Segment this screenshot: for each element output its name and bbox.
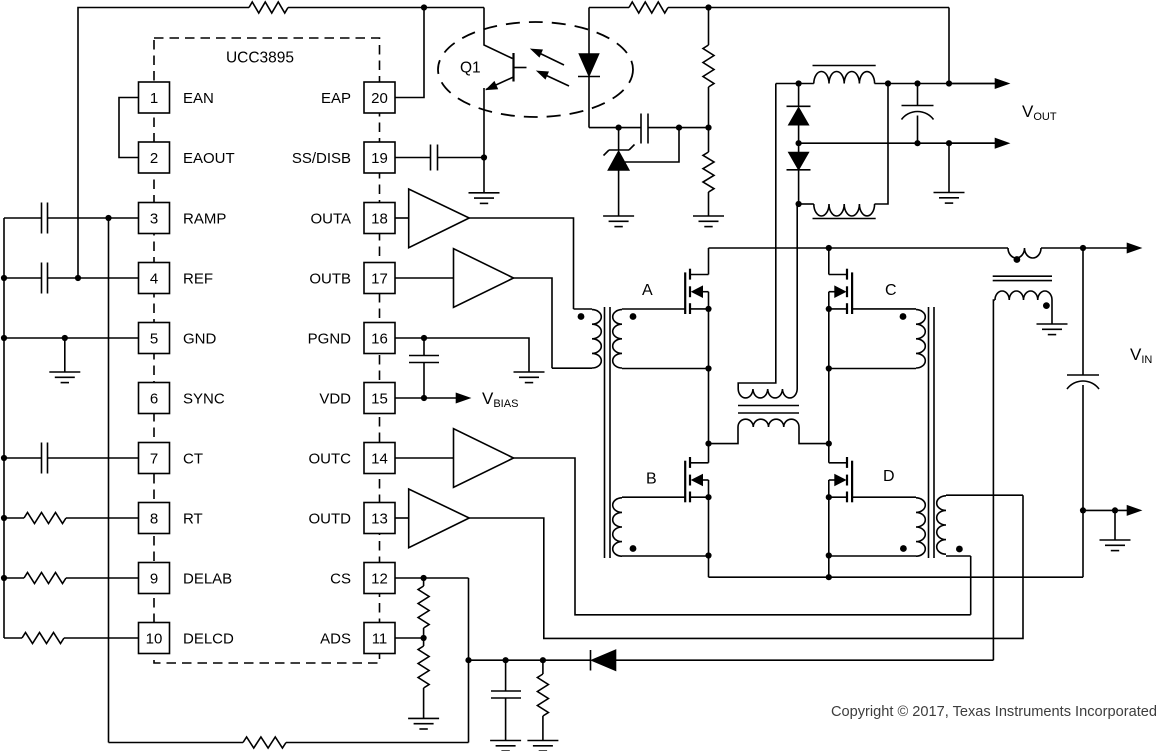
node ADS junction — [421, 635, 427, 641]
ground at T4 secondary — [1037, 324, 1068, 335]
wire bridge bottom rail — [709, 510, 1084, 577]
svg-text:6: 6 — [150, 390, 158, 407]
node VIN plus rail — [1080, 245, 1086, 251]
wire OUTA to T1 primary top — [469, 218, 573, 309]
ground at VIN minus — [1100, 510, 1131, 550]
wire output mid row — [799, 142, 1000, 144]
ground at divider — [693, 216, 724, 227]
svg-text:13: 13 — [371, 510, 388, 527]
wire OUTD to T2 via bottom — [469, 495, 1023, 638]
transistor MOSFET B — [685, 457, 708, 502]
wire EAP to top feedback — [395, 8, 424, 98]
resistor R-RT — [4, 513, 139, 524]
pin 14 OUTC — [309, 443, 396, 474]
transformer T4 secondary winding — [993, 291, 1052, 660]
wire T2 primary bottom to OUTC route — [970, 556, 972, 615]
diode D-rect lower — [787, 143, 811, 204]
svg-text:OUTC: OUTC — [309, 450, 352, 467]
svg-text:CT: CT — [183, 450, 203, 467]
wire output sense top — [589, 8, 949, 84]
ground at GND pin — [49, 338, 80, 383]
resistor R-ADS lower — [418, 638, 429, 718]
svg-text:VBIAS: VBIAS — [482, 389, 518, 410]
pin 11 ADS — [320, 623, 395, 654]
node winding C return — [826, 365, 832, 371]
ground at Q1 emitter — [469, 193, 500, 204]
capacitor C-CT — [4, 443, 139, 474]
wire far-left rail — [3, 218, 5, 638]
wire CS pin row — [395, 578, 469, 743]
label A — [642, 282, 653, 299]
node divider mid — [705, 125, 711, 131]
svg-text:1: 1 — [150, 90, 158, 107]
pin 2 EAOUT — [139, 142, 235, 173]
pin 13 OUTD — [309, 503, 396, 534]
pin 10 DELCD — [139, 623, 235, 654]
svg-text:11: 11 — [372, 630, 388, 647]
transistor Q1 emitter — [484, 77, 514, 158]
svg-text:5: 5 — [150, 330, 158, 347]
svg-text:9: 9 — [150, 570, 158, 587]
wire B source leg — [708, 480, 710, 577]
svg-text:EAP: EAP — [321, 90, 351, 107]
transistor MOSFET A — [685, 269, 708, 314]
svg-text:VDD: VDD — [319, 390, 351, 407]
buffer OUTD — [395, 489, 469, 548]
winding L-OUT bottom — [799, 84, 888, 219]
node rectifier mid left — [796, 140, 802, 146]
buffer OUTA — [395, 189, 469, 248]
capacitor C-OUT — [902, 80, 934, 146]
node B source — [705, 494, 711, 500]
svg-text:3: 3 — [150, 210, 158, 227]
svg-text:B: B — [646, 471, 657, 488]
transformer T4 primary phase dot — [1014, 256, 1021, 263]
svg-text:12: 12 — [371, 570, 388, 587]
ground at TL431 — [603, 216, 634, 227]
svg-text:RT: RT — [183, 510, 203, 527]
diode D-LED — [578, 54, 600, 128]
label VBIAS — [482, 389, 518, 410]
pin 5 GND — [139, 323, 217, 354]
resistor R-DELCD — [4, 633, 139, 644]
svg-text:Copyright © 2017, Texas Instru: Copyright © 2017, Texas Instruments Inco… — [831, 704, 1157, 720]
capacitor C-RAMP — [4, 203, 139, 234]
wire opto emitter to ground — [483, 158, 485, 193]
capacitor C-CS — [491, 660, 521, 740]
resistor R-CS filter — [537, 660, 548, 740]
svg-text:ADS: ADS — [320, 630, 351, 647]
ground at R-CS filter — [527, 741, 558, 751]
arrow VOUT plus — [949, 79, 1008, 88]
ground at C-CS — [490, 741, 521, 751]
capacitor C-SS — [395, 145, 484, 171]
capacitor C-REF — [4, 263, 139, 294]
node rectifier cathode top — [796, 80, 802, 86]
transformer T1 secondary A phase dot — [630, 313, 637, 320]
node C source — [826, 306, 832, 312]
node VIN minus ground tap — [1112, 507, 1118, 513]
node A source — [705, 306, 711, 312]
svg-text:PGND: PGND — [308, 330, 352, 347]
wire top feedback — [78, 8, 484, 279]
resistor R-RAMP bottom — [243, 737, 286, 748]
node choke right top — [885, 80, 891, 86]
label C — [885, 282, 897, 299]
buffer OUTC — [395, 429, 514, 488]
svg-text:4: 4 — [150, 270, 158, 287]
transformer T2 secondary C winding — [829, 309, 926, 369]
label Q1 — [460, 60, 481, 77]
node R-CS tap — [540, 657, 546, 663]
label VOUT — [1022, 102, 1057, 123]
svg-text:OUTD: OUTD — [309, 510, 352, 527]
svg-text:16: 16 — [371, 330, 388, 347]
transistor MOSFET D — [829, 457, 852, 502]
node RAMP junction — [105, 215, 111, 221]
svg-text:DELCD: DELCD — [183, 630, 234, 647]
node SS cap to opto emitter — [481, 154, 487, 160]
ground at ADS divider — [408, 718, 439, 729]
pin 15 VDD — [319, 383, 395, 414]
transformer T4 secondary phase dot — [1043, 302, 1050, 309]
label B — [646, 471, 657, 488]
resistor R-div lower — [703, 128, 714, 216]
wire bottom RAMP return — [109, 742, 469, 744]
node VOUT minus — [946, 140, 952, 146]
transistor MOSFET C — [829, 269, 852, 314]
transformer T2 secondary D winding — [829, 497, 926, 556]
node VOUT plus — [946, 80, 952, 86]
transformer T1 secondary B phase dot — [630, 545, 637, 552]
pin 20 EAP — [321, 82, 395, 113]
pin 18 OUTA — [310, 203, 395, 234]
node primary left — [705, 441, 711, 447]
transformer T2 primary phase dot — [956, 546, 963, 553]
wire CS filter row — [469, 659, 591, 661]
node sense divider top — [705, 4, 711, 10]
pin 7 CT — [139, 443, 204, 474]
label D — [883, 468, 895, 485]
wire A-B leg midpoint — [708, 292, 710, 463]
svg-text:VIN: VIN — [1130, 345, 1152, 366]
node EAP-feedback junction — [421, 4, 427, 10]
label VIN — [1130, 345, 1152, 366]
capacitor C-IN — [1067, 248, 1099, 510]
svg-text:15: 15 — [371, 390, 388, 407]
svg-text:8: 8 — [150, 510, 158, 527]
wire second rail x=109 — [108, 218, 110, 743]
inductor L-OUT top — [813, 66, 876, 84]
svg-text:18: 18 — [371, 210, 388, 227]
light arrow 1 — [532, 50, 564, 66]
transformer T1 secondary B winding — [613, 497, 709, 556]
wire GND row — [4, 337, 139, 339]
node junction dots on far-left rail — [1, 275, 7, 581]
node winding D return — [826, 552, 832, 558]
resistor R-sense top — [629, 2, 668, 13]
svg-text:14: 14 — [371, 450, 388, 467]
diode D-CS — [591, 650, 994, 671]
transformer T3 core — [738, 406, 799, 414]
transformer T4 core — [993, 276, 1052, 280]
node C-CS tap — [503, 657, 509, 663]
wire VBIAS arrow — [395, 394, 469, 403]
arrow VOUT minus — [949, 139, 1008, 148]
node C-FB right junction — [676, 125, 682, 131]
IC U1 UCC3895 dashed outline — [154, 38, 380, 663]
wire OUTC to T2 via bottom — [514, 458, 971, 615]
transformer T1 primary phase dot — [578, 313, 585, 320]
node VIN minus — [1080, 507, 1086, 513]
pin 17 OUTB — [309, 263, 395, 294]
wire feedback row — [589, 127, 709, 129]
svg-text:10: 10 — [146, 630, 163, 647]
resistor R-DELAB — [4, 573, 139, 584]
svg-text:20: 20 — [371, 90, 388, 107]
svg-text:Q1: Q1 — [460, 60, 481, 77]
arrow VIN plus — [1083, 244, 1140, 253]
wire VIN minus row — [1083, 506, 1140, 515]
pin 6 SYNC — [139, 383, 225, 414]
transistor Q1 base bar — [514, 53, 527, 82]
pin 3 RAMP — [139, 203, 227, 234]
wire C drain leg — [828, 248, 830, 275]
ground at PGND — [514, 372, 545, 383]
node REF-feedback junction — [75, 275, 81, 281]
pin 9 DELAB — [139, 563, 233, 594]
svg-text:19: 19 — [371, 150, 388, 167]
wire output top row — [776, 83, 1000, 85]
optocoupler Q1 dashed ellipse — [438, 22, 633, 117]
wire A drain leg — [708, 248, 710, 275]
transformer T1 primary winding — [552, 309, 601, 368]
svg-text:D: D — [883, 468, 895, 485]
transformer T3 secondary winding — [738, 84, 797, 398]
wire ADS pin row — [395, 637, 424, 639]
shunt regulator U2 TL431 — [604, 128, 680, 216]
svg-text:EAN: EAN — [183, 90, 214, 107]
pin 4 REF — [139, 263, 214, 294]
transformer T2 primary winding — [937, 495, 1023, 556]
IC label UCC3895 — [226, 50, 294, 67]
svg-text:OUTB: OUTB — [309, 270, 351, 287]
diode D-rect upper — [787, 84, 811, 144]
svg-text:VOUT: VOUT — [1022, 102, 1057, 123]
node CS divider top — [421, 575, 427, 581]
wire D source leg — [828, 480, 830, 577]
node PGND cap tap — [421, 335, 427, 341]
pin 16 PGND — [308, 323, 395, 354]
svg-text:GND: GND — [183, 330, 217, 347]
svg-text:2: 2 — [150, 150, 158, 167]
svg-text:CS: CS — [330, 570, 351, 587]
wire LED branch top — [588, 8, 590, 55]
transistor Q1 collector — [484, 8, 513, 59]
node TL431 tap — [616, 125, 622, 131]
node output winding bottom tap — [796, 201, 802, 207]
svg-text:SS/DISB: SS/DISB — [292, 150, 351, 167]
wire bridge top rail — [709, 247, 1084, 249]
pin 19 SS/DISB — [292, 142, 395, 173]
resistor R-FB top — [249, 2, 288, 13]
node GND tap — [62, 335, 68, 341]
transformer T4 primary inline — [1008, 248, 1041, 258]
capacitor C-FB — [641, 114, 648, 144]
svg-text:7: 7 — [150, 450, 158, 467]
transformer T2 secondary D phase dot — [900, 545, 907, 552]
resistor R-div upper — [703, 8, 714, 128]
node D source — [826, 494, 832, 500]
transformer T1 core — [605, 307, 611, 558]
transformer T3 primary winding — [709, 419, 829, 443]
transformer T2 secondary C phase dot — [900, 313, 907, 320]
svg-text:A: A — [642, 282, 653, 299]
svg-text:UCC3895: UCC3895 — [226, 50, 294, 67]
wire OUTB to T1 primary bottom — [514, 278, 553, 368]
pin 1 EAN — [139, 82, 214, 113]
capacitor C-VDD — [409, 338, 439, 398]
node CS filter junction — [465, 657, 471, 663]
svg-text:SYNC: SYNC — [183, 390, 225, 407]
resistor R-CS upper — [418, 578, 429, 638]
pin 8 RT — [139, 503, 203, 534]
svg-text:C: C — [885, 282, 897, 299]
transformer T1 secondary A winding — [613, 309, 709, 369]
pin 12 CS — [330, 563, 395, 594]
transformer T2 core — [929, 307, 935, 558]
svg-text:RAMP: RAMP — [183, 210, 226, 227]
svg-text:EAOUT: EAOUT — [183, 150, 235, 167]
svg-text:REF: REF — [183, 270, 213, 287]
node VDD junction — [421, 395, 427, 401]
node C drain rail tap — [826, 245, 832, 251]
copyright text — [831, 704, 1157, 720]
wire C-D leg midpoint — [828, 292, 830, 463]
wire EAN-EAOUT jumper — [119, 98, 139, 158]
ground at output return — [934, 143, 965, 203]
svg-text:17: 17 — [371, 270, 388, 287]
node winding A return — [705, 365, 711, 371]
svg-text:DELAB: DELAB — [183, 570, 232, 587]
wire PGND — [395, 338, 529, 372]
svg-text:OUTA: OUTA — [310, 210, 351, 227]
node primary right — [826, 441, 832, 447]
buffer OUTB — [395, 249, 514, 308]
node bottom rail D tap — [826, 574, 832, 580]
node winding B return — [705, 552, 711, 558]
light arrow 2 — [538, 72, 569, 87]
